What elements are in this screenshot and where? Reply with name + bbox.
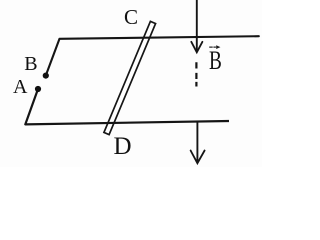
terminal dot A (35, 86, 41, 92)
bottom rail with left wire from terminal A (25, 89, 229, 124)
field arrow bottom (head) (191, 151, 205, 164)
field arrow top (head) (191, 42, 202, 53)
label B (field) (209, 48, 222, 74)
rod CD (sliding conductor) (104, 21, 156, 134)
label D (rod bottom) (114, 134, 132, 159)
terminal dot B (43, 73, 49, 79)
top rail with left wire to terminal B (46, 36, 259, 75)
dashed field line (195, 62, 197, 86)
label A (left terminal) (13, 77, 27, 97)
field arrow top (shaft) (196, 0, 198, 52)
vector arrow over field label B (209, 46, 216, 48)
label B (left terminal) (24, 54, 37, 74)
field arrow bottom (shaft) (196, 121, 198, 162)
label C (rod top) (124, 7, 138, 28)
